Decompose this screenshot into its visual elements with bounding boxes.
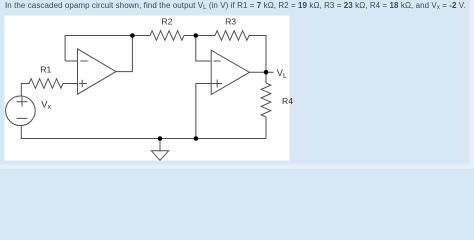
output node VL dot — [264, 70, 269, 75]
wire node A to R2 — [132, 35, 150, 37]
wire U2 output — [249, 71, 273, 73]
ground rail dot — [158, 136, 163, 141]
svg-text:R2: R2 — [162, 17, 173, 27]
Vx minus glyph — [17, 117, 28, 119]
ground stem — [159, 139, 161, 151]
svg-text:R1: R1 — [40, 64, 51, 74]
wire U2 + input to ground rail — [196, 84, 222, 139]
lighter right edge band — [470, 0, 474, 169]
wire node B to U2 inverting input — [196, 36, 211, 62]
resistor R2 — [150, 31, 184, 41]
resistor R4 — [261, 83, 271, 117]
op-amp U2 — [211, 50, 249, 94]
resistor R1 — [29, 79, 63, 89]
question text — [5, 1, 474, 10]
U1 plus glyph — [79, 80, 87, 87]
resistor R3 — [215, 31, 249, 41]
wire U1 output — [116, 36, 132, 72]
rail dot at U2 + branch — [194, 136, 199, 141]
wire output node down to R4 — [265, 72, 267, 83]
wire R2 to node B — [184, 35, 196, 37]
svg-text:R3: R3 — [225, 17, 236, 27]
wire Vx top to R1 — [21, 84, 29, 97]
Vx plus glyph — [17, 97, 28, 107]
ground — [151, 151, 168, 161]
svg-text:R4: R4 — [282, 96, 293, 106]
wire Vx bottom to rail — [21, 126, 266, 138]
U2 minus glyph — [214, 60, 221, 62]
source Vx circle — [6, 96, 36, 126]
node B junction dot — [194, 33, 199, 38]
node A junction dot — [130, 33, 135, 38]
white circuit panel — [5, 16, 290, 161]
wire R1 to op-amp U1 + input — [63, 83, 87, 85]
U2 plus glyph — [211, 80, 222, 88]
U1 minus glyph — [80, 60, 87, 62]
wire node B to R3 — [196, 35, 215, 37]
lighter bottom edge band — [0, 165, 474, 170]
wire U1 inverting input — [65, 60, 77, 62]
wire R4 to bottom rail — [265, 117, 267, 139]
wire R3 to output node — [249, 36, 266, 73]
wire feedback U1 — [65, 36, 132, 62]
op-amp U1 — [78, 49, 117, 94]
